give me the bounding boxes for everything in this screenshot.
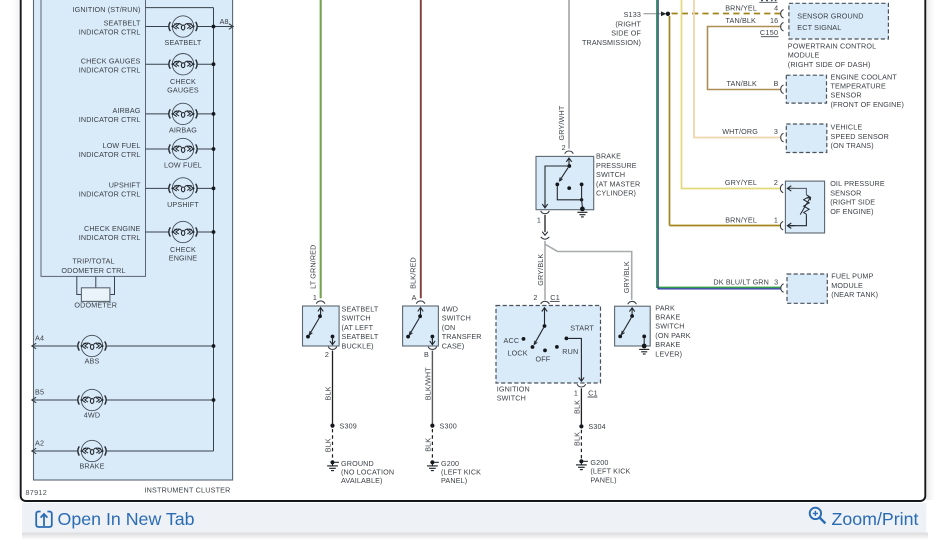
svg-text:INDICATOR CTRL: INDICATOR CTRL — [79, 233, 141, 242]
svg-text:A4: A4 — [35, 334, 44, 343]
svg-text:4WD: 4WD — [84, 411, 100, 420]
svg-text:TRIP/TOTAL: TRIP/TOTAL — [72, 257, 114, 266]
svg-text:2: 2 — [562, 143, 566, 152]
pin 2 seatbelt switch — [328, 347, 337, 350]
4wd switch internals — [418, 308, 423, 316]
node S133 label — [582, 10, 642, 47]
svg-text:MODULE: MODULE — [831, 281, 863, 290]
brake pressure switch internals — [566, 158, 571, 166]
svg-text:4: 4 — [774, 3, 778, 12]
svg-text:SENSOR: SENSOR — [831, 91, 862, 100]
svg-text:(NEAR TANK): (NEAR TANK) — [831, 290, 878, 299]
svg-text:3: 3 — [774, 127, 778, 136]
svg-text:Zoom/Print: Zoom/Print — [832, 509, 919, 529]
svg-text:BLK: BLK — [424, 438, 433, 452]
svg-text:(ON TRANS): (ON TRANS) — [831, 141, 874, 150]
lamp CHECK GAUGES — [169, 53, 197, 74]
seatbelt switch internals — [318, 308, 323, 316]
svg-text:B5: B5 — [35, 388, 44, 397]
svg-text:(LEFT KICK: (LEFT KICK — [441, 468, 481, 477]
ground G200 left kick panel — [427, 460, 438, 470]
wire LOW FUEL row — [146, 148, 214, 150]
svg-text:BRAKE: BRAKE — [596, 152, 621, 161]
svg-text:(ON: (ON — [442, 323, 456, 332]
svg-text:LT GRN/RED: LT GRN/RED — [309, 245, 318, 289]
wire BLK ignition to S304 — [580, 388, 582, 424]
instrument cluster inner label box — [41, 0, 146, 276]
svg-text:FUEL PUMP: FUEL PUMP — [831, 272, 873, 281]
wire DK BLU/LT GRN to fuel pump pin 3 — [657, 0, 781, 287]
node S161 top fragment — [759, 1, 777, 3]
lamp 4WD — [78, 389, 106, 410]
svg-text:PANEL): PANEL) — [590, 475, 616, 484]
seatbelt switch box — [303, 306, 340, 346]
svg-text:ODOMETER: ODOMETER — [74, 301, 117, 310]
pin A8 arrow — [229, 24, 233, 30]
seatbelt switch label — [342, 305, 379, 351]
svg-text:SEATBELT: SEATBELT — [165, 38, 202, 47]
node seatbelt-bus junction — [212, 25, 216, 29]
svg-text:A2: A2 — [35, 439, 44, 448]
ignition switch internals — [542, 308, 547, 316]
svg-text:(LEFT KICK: (LEFT KICK — [590, 467, 630, 476]
VSS sensor box — [786, 124, 827, 153]
svg-text:PARK: PARK — [655, 303, 675, 312]
svg-text:B: B — [424, 350, 429, 359]
svg-text:(AT LEFT: (AT LEFT — [342, 323, 374, 332]
svg-text:LEVER): LEVER) — [655, 349, 682, 358]
svg-text:(RIGHT: (RIGHT — [615, 19, 641, 28]
wire CHECK GAUGES row — [146, 63, 214, 65]
svg-text:C150: C150 — [760, 28, 778, 37]
svg-text:1: 1 — [774, 215, 778, 224]
svg-text:2: 2 — [774, 178, 778, 187]
ground inside brake pressure switch — [577, 207, 587, 217]
node S309 — [330, 424, 334, 428]
svg-text:ENGINE: ENGINE — [169, 253, 198, 262]
svg-text:1: 1 — [537, 215, 541, 224]
pin 1 brake pressure switch — [541, 211, 550, 214]
wire BLK/WHT below 4wd switch — [431, 351, 433, 424]
svg-text:3: 3 — [774, 278, 778, 287]
wire GRY/BLK split — [544, 241, 546, 300]
lamp ABS — [78, 335, 106, 356]
svg-text:A8: A8 — [220, 17, 229, 26]
wire BRAKE row — [32, 450, 214, 452]
svg-text:INSTRUMENT CLUSTER: INSTRUMENT CLUSTER — [144, 486, 230, 495]
svg-text:RUN: RUN — [562, 347, 578, 356]
svg-text:(ON PARK: (ON PARK — [655, 331, 690, 340]
svg-text:ENGINE COOLANT: ENGINE COOLANT — [831, 72, 898, 81]
svg-text:START: START — [570, 324, 594, 333]
node S133 splice — [666, 12, 670, 16]
card right shadow — [926, 0, 934, 500]
svg-text:87912: 87912 — [26, 488, 48, 497]
wire BRN/YEL vertical to oil pressure sensor — [669, 16, 671, 226]
svg-text:1: 1 — [313, 293, 317, 302]
4wd switch box — [403, 306, 439, 346]
svg-text:G200: G200 — [441, 459, 459, 468]
svg-text:(NO LOCATION: (NO LOCATION — [341, 468, 394, 477]
svg-text:INDICATOR CTRL: INDICATOR CTRL — [79, 28, 141, 37]
svg-text:SPEED SENSOR: SPEED SENSOR — [831, 132, 890, 141]
odometer ctrl leads — [77, 276, 115, 294]
lamp AIRBAG — [169, 103, 197, 124]
pin B5 arrow — [32, 397, 36, 403]
svg-text:SWITCH: SWITCH — [655, 322, 684, 331]
wire BLK/RED vertical — [419, 0, 421, 298]
svg-text:ACC: ACC — [504, 336, 520, 345]
wire IGNITION (ST/RUN) — [146, 7, 214, 9]
wire ABS row — [32, 345, 214, 347]
pin 1 C1 ignition switch — [577, 384, 586, 387]
svg-text:INDICATOR CTRL: INDICATOR CTRL — [79, 115, 141, 124]
wire BLK pin1 to connector — [544, 215, 546, 232]
svg-text:BLK: BLK — [324, 386, 333, 400]
wire AIRBAG row — [146, 113, 214, 115]
svg-text:OFF: OFF — [535, 354, 550, 363]
brake pressure switch label — [596, 152, 640, 198]
footer magnifier icon — [810, 508, 826, 524]
wire GRY/WHT vertical — [568, 0, 570, 149]
svg-text:AVAILABLE): AVAILABLE) — [341, 476, 383, 485]
wire START to pin 1 — [568, 338, 581, 373]
svg-text:OF ENGINE): OF ENGINE) — [830, 207, 873, 216]
pin A2 arrow — [32, 448, 36, 454]
svg-text:SIDE OF: SIDE OF — [611, 29, 641, 38]
svg-text:PANEL): PANEL) — [441, 476, 467, 485]
svg-text:BLK/RED: BLK/RED — [409, 257, 418, 289]
svg-text:GRY/BLK: GRY/BLK — [536, 254, 545, 286]
left pin labels text — [61, 5, 141, 275]
svg-text:BRN/YEL: BRN/YEL — [725, 3, 757, 12]
svg-text:IGNITION (ST/RUN): IGNITION (ST/RUN) — [72, 5, 140, 14]
wire CHECK ENGINE row — [146, 231, 214, 233]
svg-text:S300: S300 — [440, 421, 457, 430]
svg-text:UPSHIFT: UPSHIFT — [109, 181, 141, 190]
svg-text:SWITCH: SWITCH — [342, 314, 371, 323]
wire BLK dashed to ground — [332, 429, 334, 459]
svg-text:AIRBAG: AIRBAG — [112, 106, 140, 115]
svg-text:C1: C1 — [550, 293, 560, 302]
svg-text:SWITCH: SWITCH — [497, 394, 526, 403]
oil pressure sensor box — [785, 181, 824, 233]
svg-text:INDICATOR CTRL: INDICATOR CTRL — [79, 150, 141, 159]
pin park brake switch — [628, 301, 637, 304]
svg-text:BRN/YEL: BRN/YEL — [725, 215, 757, 224]
svg-text:MODULE: MODULE — [788, 51, 820, 60]
svg-text:INDICATOR CTRL: INDICATOR CTRL — [79, 190, 141, 199]
ground G200 ignition — [576, 459, 587, 469]
svg-text:PRESSURE: PRESSURE — [596, 161, 637, 170]
svg-text:S304: S304 — [588, 422, 605, 431]
svg-text:G200: G200 — [590, 458, 608, 467]
svg-text:(FRONT OF ENGINE): (FRONT OF ENGINE) — [831, 100, 905, 109]
park brake switch box — [615, 306, 651, 346]
oil pressure sensor internals — [787, 186, 795, 191]
op PCM box — [789, 3, 889, 39]
svg-text:LOW FUEL: LOW FUEL — [103, 141, 141, 150]
wire 4WD row — [32, 399, 214, 401]
svg-text:BRAKE: BRAKE — [655, 340, 680, 349]
svg-text:DK BLU/LT GRN: DK BLU/LT GRN — [713, 278, 769, 287]
lamp SEATBELT — [169, 16, 197, 37]
wire BRN/YEL to oil pressure pin 1 — [670, 225, 781, 227]
footer bar — [22, 503, 926, 533]
wire indicator bus — [213, 8, 215, 451]
svg-text:BUCKLE): BUCKLE) — [342, 341, 374, 350]
svg-text:BRAKE: BRAKE — [79, 462, 104, 471]
inline connector — [542, 232, 548, 236]
lamp CHECK ENGINE — [169, 221, 197, 242]
svg-text:GRY/BLK: GRY/BLK — [622, 261, 631, 293]
svg-text:SENSOR: SENSOR — [830, 188, 861, 197]
svg-text:BLK: BLK — [573, 432, 582, 446]
svg-text:ABS: ABS — [85, 357, 100, 366]
svg-text:BRAKE: BRAKE — [655, 313, 680, 322]
lamp BRAKE — [78, 440, 106, 461]
wire S133 leader — [644, 13, 663, 15]
svg-text:16: 16 — [770, 16, 778, 25]
wire UPSHIFT row — [146, 187, 214, 189]
svg-text:AIRBAG: AIRBAG — [169, 125, 197, 134]
svg-text:POWERTRAIN CONTROL: POWERTRAIN CONTROL — [788, 41, 876, 50]
wire TAN/BLK PCM pin 16 to ECT pin B — [708, 27, 781, 90]
lamp UPSHIFT — [169, 178, 197, 199]
wire BLK dashed to ground — [580, 430, 582, 459]
svg-text:GRY/WHT: GRY/WHT — [557, 105, 566, 140]
svg-text:TAN/BLK: TAN/BLK — [726, 16, 757, 25]
fuel pump module box — [787, 274, 827, 303]
svg-text:BLK/WHT: BLK/WHT — [424, 367, 433, 400]
svg-text:CHECK ENGINE: CHECK ENGINE — [84, 224, 141, 233]
odometer crystal — [81, 288, 110, 302]
wire BRN/YEL dashed to PCM pin 4 — [672, 13, 781, 15]
svg-text:ECT SIGNAL: ECT SIGNAL — [797, 23, 841, 32]
wire BLK below seatbelt switch — [332, 351, 334, 424]
svg-text:(AT MASTER: (AT MASTER — [596, 179, 640, 188]
svg-text:GROUND: GROUND — [341, 459, 374, 468]
svg-text:ODOMETER CTRL: ODOMETER CTRL — [61, 266, 125, 275]
svg-text:SEATBELT: SEATBELT — [104, 19, 141, 28]
svg-text:CASE): CASE) — [442, 341, 465, 350]
svg-text:A: A — [412, 293, 417, 302]
svg-text:GAUGES: GAUGES — [167, 86, 199, 95]
svg-text:IGNITION: IGNITION — [497, 384, 530, 393]
node S300 — [430, 424, 434, 428]
svg-text:TAN/BLK: TAN/BLK — [727, 79, 758, 88]
svg-text:2: 2 — [325, 350, 329, 359]
PCM label — [788, 41, 876, 68]
svg-text:SENSOR GROUND: SENSOR GROUND — [797, 11, 863, 20]
brake pressure switch box — [536, 156, 594, 209]
svg-text:2: 2 — [533, 293, 537, 302]
svg-text:VEHICLE: VEHICLE — [831, 123, 863, 132]
node S304 — [579, 424, 583, 428]
svg-text:S133: S133 — [624, 10, 641, 19]
svg-text:CHECK GAUGES: CHECK GAUGES — [81, 56, 141, 65]
svg-text:LOW FUEL: LOW FUEL — [164, 160, 202, 169]
wire SEATBELT row — [146, 26, 233, 28]
wire LT GRN/RED vertical — [319, 0, 321, 298]
svg-text:OIL PRESSURE: OIL PRESSURE — [830, 179, 885, 188]
instrument cluster outer box — [34, 0, 233, 480]
svg-text:INDICATOR CTRL: INDICATOR CTRL — [79, 65, 141, 74]
svg-text:UPSHIFT: UPSHIFT — [167, 200, 199, 209]
svg-text:CYLINDER): CYLINDER) — [596, 189, 636, 198]
pin A4 arrow — [32, 343, 36, 349]
ignition positions — [522, 337, 526, 341]
wire BLK dashed to ground — [431, 429, 433, 459]
svg-text:C1: C1 — [588, 389, 598, 398]
ground G-no-location — [327, 460, 338, 470]
wire WHT/ORG to VSS pin 3 — [694, 0, 781, 138]
svg-text:S309: S309 — [340, 421, 357, 430]
svg-text:SWITCH: SWITCH — [442, 314, 471, 323]
pin B 4wd switch — [428, 347, 437, 350]
svg-text:GRY/YEL: GRY/YEL — [725, 178, 757, 187]
svg-text:1: 1 — [574, 389, 578, 398]
svg-text:TRANSFER: TRANSFER — [442, 332, 482, 341]
svg-text:TEMPERATURE: TEMPERATURE — [831, 82, 886, 91]
svg-text:BLK: BLK — [573, 400, 582, 414]
svg-text:LOCK: LOCK — [508, 348, 528, 357]
lamp LOW FUEL — [169, 138, 197, 159]
ignition switch box — [496, 306, 601, 384]
svg-text:B: B — [774, 79, 779, 88]
4wd switch label — [442, 305, 482, 351]
svg-text:SWITCH: SWITCH — [596, 170, 625, 179]
wire GRY/YEL to oil pressure pin 2 — [682, 0, 781, 189]
svg-text:4WD: 4WD — [442, 305, 458, 314]
svg-text:SEATBELT: SEATBELT — [342, 332, 379, 341]
resistor R oil pressure — [804, 195, 810, 214]
svg-text:(RIGHT SIDE: (RIGHT SIDE — [830, 198, 875, 207]
svg-text:WHT/ORG: WHT/ORG — [722, 127, 758, 136]
svg-text:Open In New Tab: Open In New Tab — [58, 509, 195, 529]
footer open-in-new-tab icon — [36, 512, 52, 528]
svg-text:BLK: BLK — [324, 438, 333, 452]
svg-text:TRANSMISSION): TRANSMISSION) — [582, 38, 641, 47]
ECT sensor box — [786, 75, 826, 103]
svg-text:(RIGHT SIDE OF DASH): (RIGHT SIDE OF DASH) — [788, 60, 871, 69]
svg-text:SEATBELT: SEATBELT — [342, 305, 379, 314]
park brake switch internals — [629, 308, 634, 316]
park brake switch label — [655, 303, 690, 358]
